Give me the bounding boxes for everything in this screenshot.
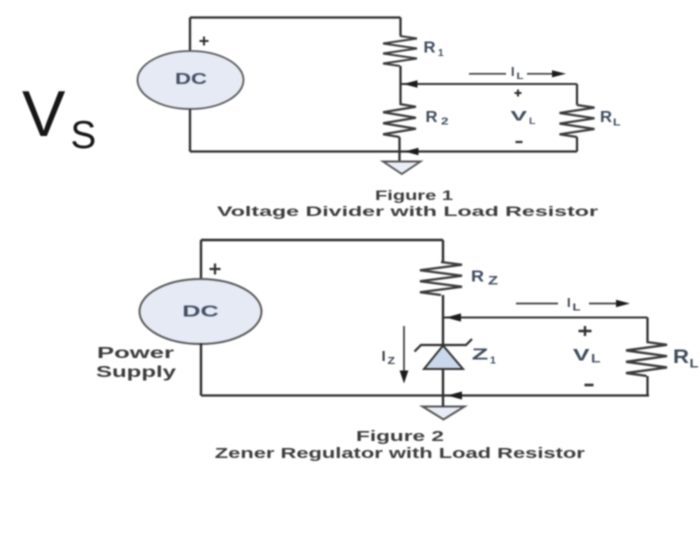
DC source V1 (figure 1) [138, 51, 244, 109]
wire: RZ bottom to zener (through node B) [442, 295, 444, 345]
junction arrowhead into node A [403, 80, 418, 88]
svg-text:DC: DC [175, 71, 207, 88]
svg-text:I: I [511, 65, 514, 79]
resistor RL (figure 2) [626, 342, 667, 376]
DC power supply source (figure 2) [140, 279, 262, 344]
svg-text:R: R [600, 109, 612, 126]
wire: figure1 top wire [190, 16, 401, 18]
resistor R1 [383, 36, 417, 66]
svg-text:R: R [471, 269, 484, 286]
svg-text:L: L [517, 71, 525, 81]
svg-text:Voltage Divider with Load Resi: Voltage Divider with Load Resistor [217, 203, 599, 219]
plus polarity mark figure2 [210, 264, 221, 275]
wire: figure2 DC bottom lead [200, 343, 202, 396]
svg-text:I: I [567, 295, 571, 310]
svg-text:Power: Power [97, 345, 174, 362]
svg-text:2: 2 [441, 117, 449, 128]
svg-text:S: S [71, 114, 97, 157]
resistor R2 [383, 104, 416, 137]
wire: figure1 right top vertical into R1 [399, 18, 401, 37]
resistor RL (figure 1) [560, 105, 595, 137]
wire: node B to RL corner figure2 [443, 316, 648, 318]
svg-text:Figure 1: Figure 1 [375, 187, 453, 203]
svg-text:L: L [529, 116, 536, 126]
junction arrowhead on bottom wire figure1 [405, 148, 419, 155]
svg-text:Figure 2: Figure 2 [356, 429, 444, 445]
wire: figure1 DC top lead [189, 18, 191, 53]
load voltage VL figure2 [579, 326, 592, 336]
wire: figure1 bottom wire [190, 150, 577, 152]
current IL annotation arrow figure1 [469, 73, 506, 75]
zener diode Z1 cathode bar [415, 339, 473, 352]
junction arrowhead on bottom wire figure2 [447, 392, 462, 400]
svg-text:I: I [382, 348, 386, 365]
svg-text:L: L [690, 357, 699, 371]
wire: figure2 right vertical into RZ [442, 240, 444, 262]
plus polarity mark figure1 [200, 37, 209, 46]
wire: zener anode to bottom wire [442, 369, 444, 396]
svg-text:L: L [613, 118, 621, 129]
wire: RL branch figure2 [646, 318, 648, 343]
svg-text:1: 1 [490, 355, 496, 367]
svg-text:DC: DC [182, 304, 219, 321]
wire: node A to RL top corner [401, 83, 578, 85]
load voltage VL figure1 [515, 90, 522, 97]
svg-text:V: V [511, 109, 528, 124]
svg-text:1: 1 [438, 48, 444, 59]
svg-text:Supply: Supply [96, 364, 176, 381]
svg-text:Z: Z [388, 355, 396, 367]
svg-text:L: L [573, 303, 581, 314]
svg-text:R: R [426, 109, 438, 126]
svg-text:V: V [573, 346, 590, 365]
svg-text:Zener Regulator with Load Resi: Zener Regulator with Load Resistor [215, 446, 586, 462]
wire: figure2 bottom wire [201, 394, 649, 396]
wire: R2 bottom to ground node [398, 137, 400, 162]
svg-text:L: L [591, 352, 601, 366]
wire: figure1 DC bottom lead [189, 109, 191, 152]
svg-text:Z: Z [472, 347, 489, 364]
current IZ annotation arrow [403, 326, 405, 371]
current IL annotation arrow figure2 [516, 303, 558, 305]
wire: RL branch figure1 [576, 84, 578, 105]
wire: figure2 DC top lead [200, 240, 202, 280]
svg-text:V: V [22, 77, 66, 150]
ground figure1 [383, 162, 421, 175]
wire: R1 bottom to R2 top (through node A) [399, 66, 401, 104]
resistor RZ [420, 262, 462, 295]
junction arrowhead into node B [446, 313, 461, 321]
ground figure2 [423, 407, 465, 420]
svg-text:R: R [424, 40, 436, 57]
wire: figure2 top wire [201, 239, 443, 241]
svg-text:R: R [673, 347, 689, 368]
svg-text:Z: Z [488, 276, 498, 288]
zener diode Z1 anode triangle [424, 346, 463, 370]
node VS label [22, 77, 96, 157]
